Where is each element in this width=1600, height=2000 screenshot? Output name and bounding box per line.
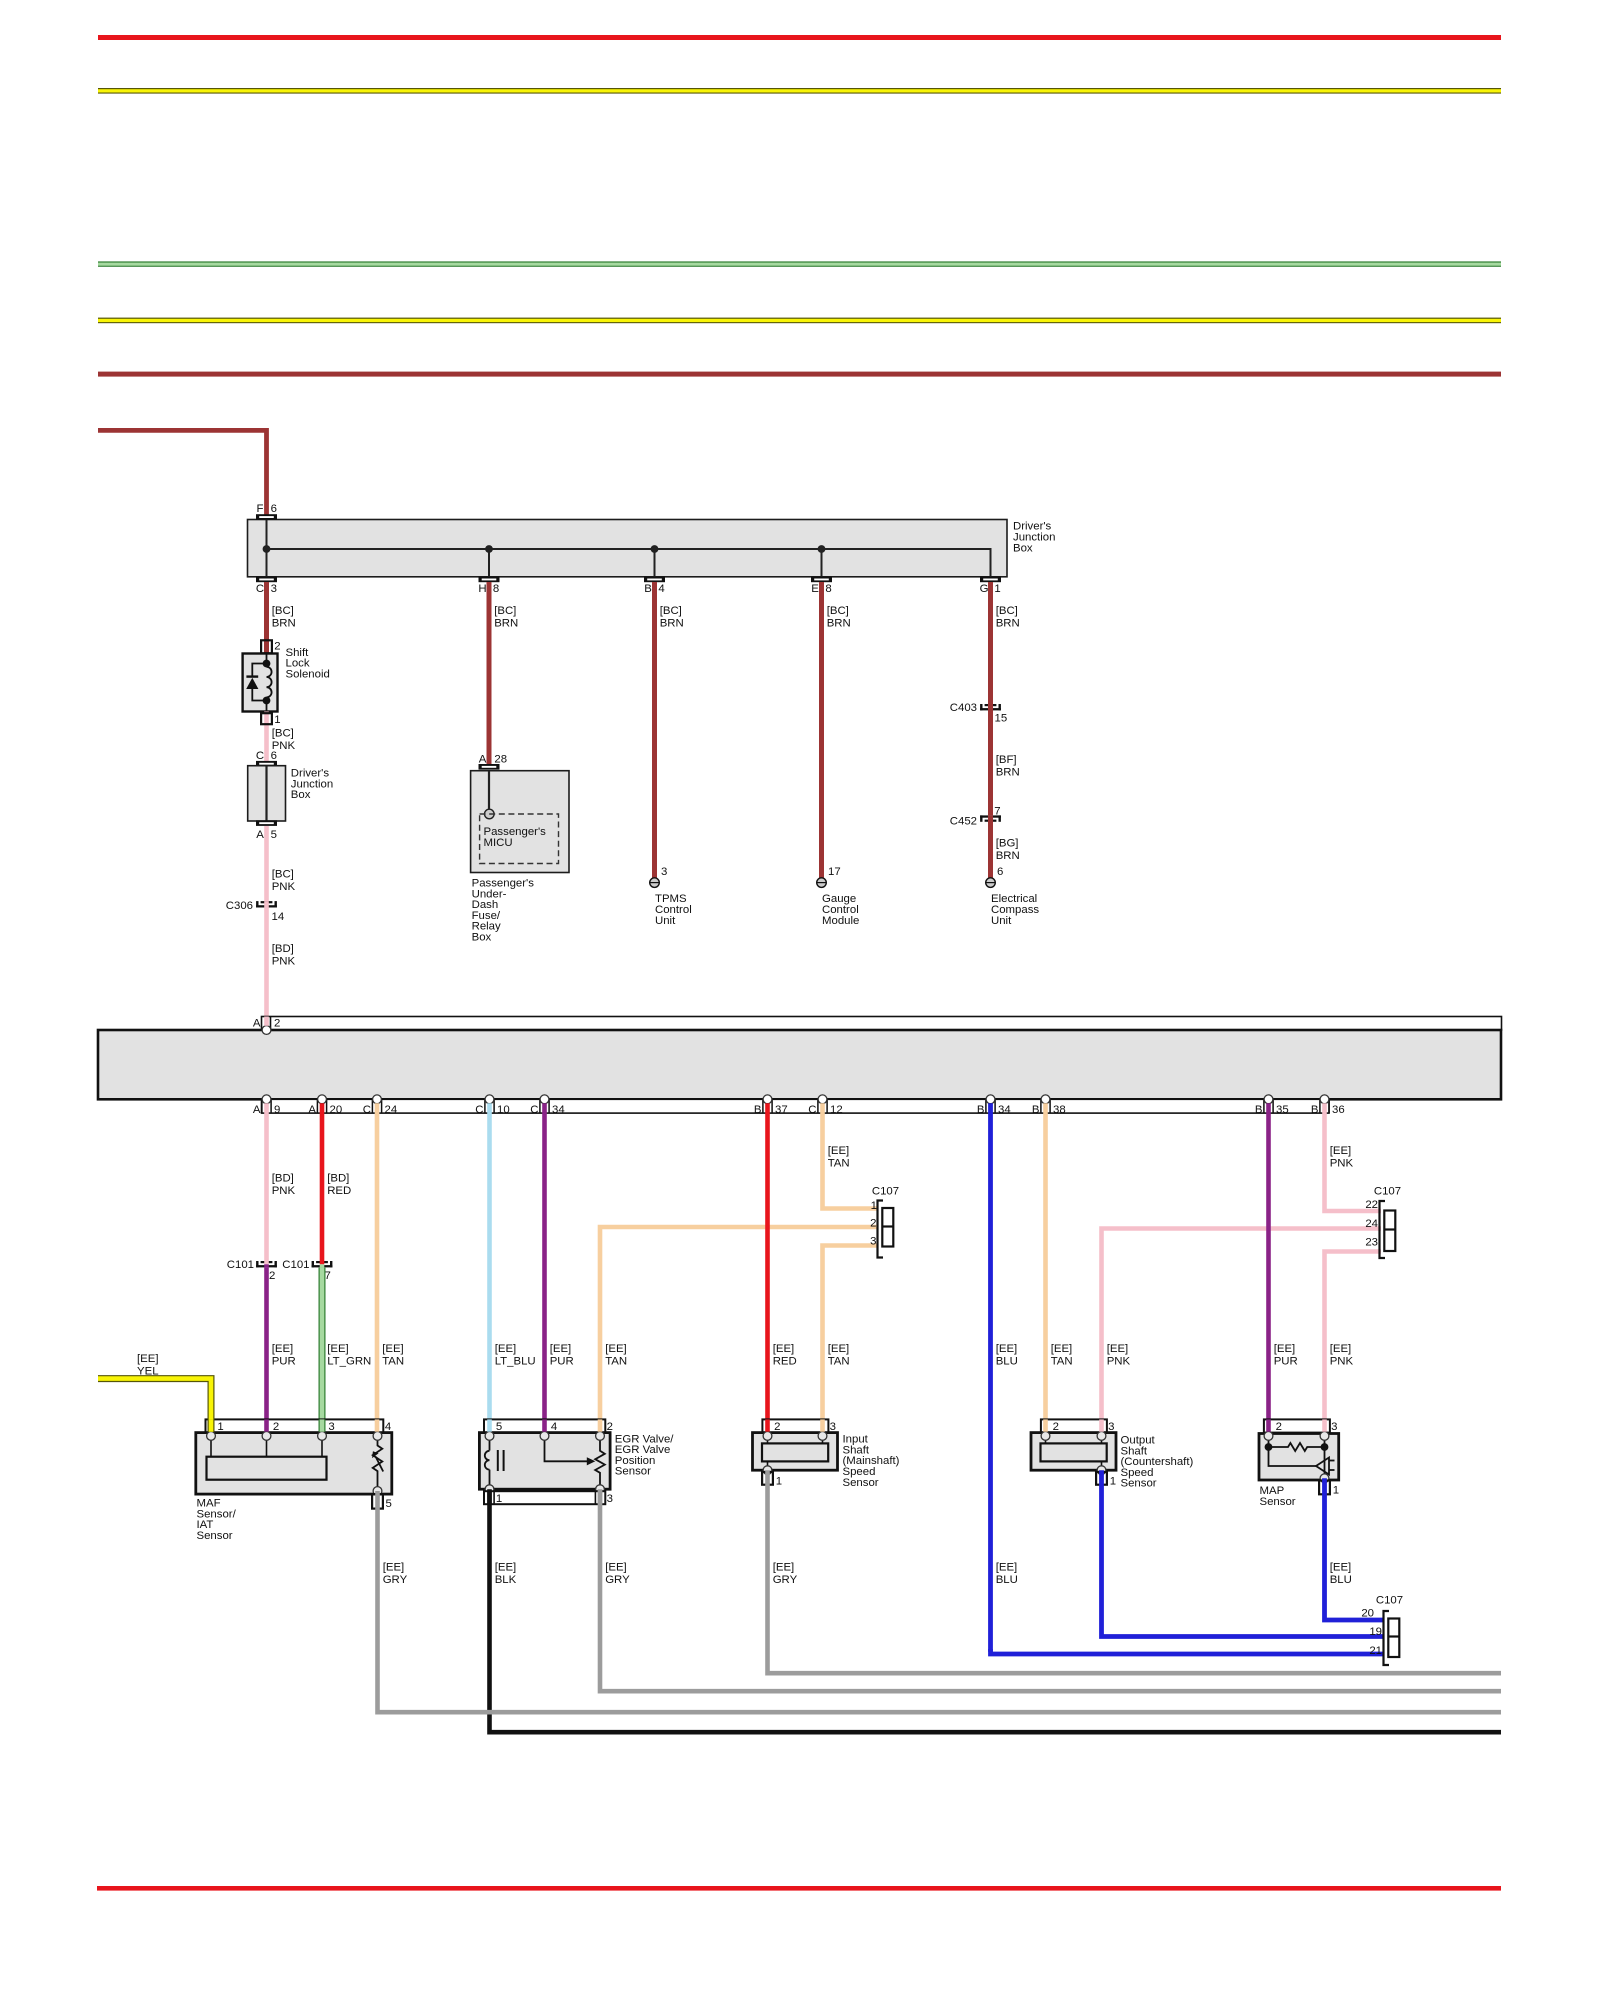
svg-text:[BG]: [BG] [996,837,1019,849]
svg-text:1: 1 [217,1421,223,1433]
svg-text:3: 3 [830,1421,836,1433]
MAP sensor body [1259,1434,1339,1481]
wire overlay LT_GRN at MAF pin3 [319,1419,326,1431]
inline connector C306 [256,901,258,907]
output sensor pin circles [1041,1432,1050,1441]
svg-text:C: C [256,583,264,595]
svg-text:9: 9 [274,1104,280,1116]
svg-text:3: 3 [1331,1421,1337,1433]
wire overlay TAN at input pin3 [820,1419,825,1431]
wire overlay RED at input pin2 [765,1419,770,1431]
wire [EE] BLU B34 down [988,1103,993,1651]
svg-text:B: B [754,1104,762,1116]
svg-text:8: 8 [493,583,499,595]
wire [EE] YEL to MAF pin1 [98,1379,211,1432]
wire [EE] PNK output3-C107 pin24 [1102,1229,1382,1432]
svg-text:5: 5 [496,1421,502,1433]
rule: green wire band [98,261,1501,266]
svg-text:10: 10 [497,1104,510,1116]
EGR solenoid coil [485,1436,490,1487]
junction connector C107 (middle) [878,1201,884,1258]
svg-text:[EE]: [EE] [828,1145,850,1157]
svg-text:1: 1 [496,1493,502,1505]
wire [EE] BLK EGR1 out [490,1489,1502,1732]
wire [BC] BRN from B4 [652,582,657,878]
svg-text:PUR: PUR [272,1356,296,1368]
svg-text:1: 1 [1110,1476,1116,1488]
rule: red separator line (bottom) [97,1886,1501,1891]
svg-text:4: 4 [658,583,664,595]
solenoid pin 1 [261,713,272,724]
connector pin A28 [479,764,500,770]
svg-text:2: 2 [274,641,280,653]
wire overlay BRN at C452 [988,815,993,822]
terminal 3 (TPMS) [650,878,660,888]
svg-text:BRN: BRN [996,850,1020,862]
svg-text:A: A [308,1104,316,1116]
input sensor body [753,1433,838,1471]
svg-text:[EE]: [EE] [605,1562,627,1574]
svg-text:2: 2 [607,1421,613,1433]
rule: red separator line (top) [98,35,1501,40]
svg-text:BLU: BLU [1330,1574,1352,1586]
svg-text:3: 3 [1108,1421,1114,1433]
wire [EE] BLU MAP1 to C107 pin20 [1325,1478,1384,1620]
svg-text:[EE]: [EE] [382,1343,404,1355]
svg-text:19: 19 [1369,1626,1382,1638]
svg-text:[BC]: [BC] [494,605,516,617]
wire overlay TAN at MAF pin4 [375,1419,380,1431]
rule: yellow wire band (top) [98,88,1501,94]
svg-text:28: 28 [494,753,507,765]
wire overlay LT_GRN at C101 right bottom [320,1264,325,1267]
wire overlay PNK at MAP pin3 [1322,1419,1327,1431]
svg-text:C107: C107 [1376,1595,1403,1607]
svg-text:PUR: PUR [550,1356,574,1368]
wire overlay TAN at output pin2 [1043,1419,1048,1431]
junction node (H8 column) [485,545,493,553]
svg-text:1: 1 [1333,1485,1339,1497]
wire [EE] GRY input1 out [768,1470,1502,1673]
svg-text:[EE]: [EE] [1274,1343,1296,1355]
svg-text:[EE]: [EE] [1330,1343,1352,1355]
wire [EE] PNK C107 pin23-MAP3 [1325,1252,1382,1432]
wire overlay PUR at EGR pin4 [542,1419,547,1431]
svg-text:3: 3 [271,583,277,595]
svg-text:17: 17 [828,866,841,878]
svg-text:C: C [475,1104,483,1116]
wire [EE] PNK B36-C107 pin22 [1325,1103,1382,1211]
junction node (F6/C3 column) [263,545,271,553]
svg-text:[BC]: [BC] [272,605,294,617]
svg-text:8: 8 [825,583,831,595]
junction connector C107 (lower right) [1384,1611,1390,1665]
svg-text:BRN: BRN [660,618,684,630]
svg-text:1: 1 [776,1476,782,1488]
svg-text:[EE]: [EE] [996,1343,1018,1355]
wire [EE] PUR C34-EGR4 [542,1103,547,1431]
wire [EE] LT_GRN C101-MAF3 [319,1268,326,1432]
terminal circle (MICU) [485,809,495,819]
svg-text:BLK: BLK [495,1574,517,1586]
svg-text:C101: C101 [282,1259,309,1271]
wire overlay PUR at MAP pin2 [1266,1419,1271,1431]
wire [EE] GRY EGR3 out [600,1489,1501,1691]
svg-text:1: 1 [994,583,1000,595]
wire overlay LT_BLU at EGR pin5 [487,1419,492,1431]
wire overlay BLK at EGR pin1 [487,1491,492,1504]
wire [EE] TAN EGR2-C107 [600,1227,878,1432]
svg-text:C107: C107 [872,1186,899,1198]
svg-text:PNK: PNK [272,1185,296,1197]
svg-text:PNK: PNK [1330,1158,1354,1170]
pin circle A2 [262,1026,271,1035]
solenoid pin 2 [261,640,272,653]
svg-text:TAN: TAN [605,1356,627,1368]
wire [EE] PUR C101-MAF2 [264,1268,269,1432]
wire overlay PUR at C101 left bottom [264,1264,269,1267]
svg-text:TAN: TAN [1051,1356,1073,1368]
MAP pin 1 [1319,1481,1330,1495]
svg-text:[EE]: [EE] [1051,1343,1073,1355]
wire to MICU terminal [488,771,490,809]
ECM bottom strip pin cells and labels [261,1099,263,1113]
driver's junction box 2 [248,766,286,821]
junction box internal bus wire [267,515,991,577]
wire [BC] PNK from A5 [264,826,269,901]
svg-text:[BC]: [BC] [996,605,1018,617]
wire overlay PNK at C101 left top [264,1261,269,1264]
wire [BG] BRN [988,822,993,878]
svg-text:Box: Box [1013,542,1033,554]
svg-text:[BD]: [BD] [272,1173,294,1185]
wire overlay PNK at A2 cell [264,1017,269,1026]
MAP transducer symbol [1269,1447,1317,1466]
svg-text:[EE]: [EE] [773,1343,795,1355]
svg-text:Box: Box [291,789,311,801]
svg-text:H: H [478,583,486,595]
wire [EE] BLU B34 to C107 pin21 [991,1649,1384,1654]
svg-text:PUR: PUR [1274,1356,1298,1368]
wire overlay BRN at C403 [988,704,993,711]
svg-text:GRY: GRY [605,1574,630,1586]
wire overlay PNK at output pin3 [1099,1419,1104,1431]
svg-text:BRN: BRN [272,618,296,630]
wire [EE] BLU output1 to C107 pin19 [1102,1470,1384,1636]
EGR valve body [479,1433,610,1490]
svg-text:A: A [479,753,487,765]
svg-text:Sensor: Sensor [615,1466,651,1478]
input sensor pin circles [763,1432,772,1441]
driver's junction box (bus) [248,520,1008,577]
svg-text:C: C [808,1104,816,1116]
svg-text:C: C [363,1104,371,1116]
inline connector C101 (left) [256,1261,258,1267]
wire [EE] TAN C24-MAF4 [375,1103,380,1431]
shift lock solenoid body [243,654,278,712]
inline connector C101 (right) [312,1261,314,1267]
svg-text:[EE]: [EE] [605,1343,627,1355]
svg-text:[EE]: [EE] [383,1562,405,1574]
terminal 17 (gauge) [817,878,827,888]
svg-text:[EE]: [EE] [550,1343,572,1355]
svg-text:[EE]: [EE] [272,1343,294,1355]
svg-text:[EE]: [EE] [1330,1145,1352,1157]
svg-text:20: 20 [1361,1608,1374,1620]
MAP pin circles [1264,1432,1273,1441]
svg-text:C101: C101 [227,1259,254,1271]
ECM top connector strip [262,1017,1502,1031]
svg-text:2: 2 [870,1217,876,1229]
svg-text:3: 3 [607,1493,613,1505]
svg-text:B: B [1032,1104,1040,1116]
svg-text:B: B [977,1104,985,1116]
svg-text:3: 3 [661,866,667,878]
svg-text:Sensor: Sensor [1121,1478,1157,1490]
svg-text:C107: C107 [1374,1186,1401,1198]
junction node (B4 column) [651,545,659,553]
passenger's under-dash fuse/relay box [471,771,569,873]
terminal 6 (compass) [986,878,996,888]
svg-text:LT_GRN: LT_GRN [327,1356,371,1368]
svg-text:TAN: TAN [382,1356,404,1368]
svg-text:C: C [530,1104,538,1116]
wire [BC] BRN battery feed to F6 [98,430,267,515]
svg-text:TAN: TAN [828,1158,850,1170]
svg-text:PNK: PNK [272,881,296,893]
svg-text:PNK: PNK [1107,1356,1131,1368]
svg-text:[BC]: [BC] [660,605,682,617]
wire [BC] BRN from C3 [264,582,269,654]
rule: dark red wire band [98,372,1501,377]
wire [BF] BRN [988,711,993,816]
svg-text:7: 7 [994,806,1000,818]
svg-text:RED: RED [773,1356,797,1368]
wire overlay PNK at C306 [264,901,269,908]
solenoid flyback diode [252,664,266,701]
svg-text:21: 21 [1369,1645,1382,1657]
svg-text:A: A [253,1017,261,1029]
EGR pin circles [485,1432,494,1441]
svg-text:3: 3 [328,1421,334,1433]
wire [EE] LT_BLU C10-EGR5 [487,1103,492,1431]
svg-text:15: 15 [995,713,1008,725]
svg-text:14: 14 [272,911,285,923]
wire overlay RED at C101 right top [320,1261,325,1264]
svg-text:4: 4 [551,1421,557,1433]
svg-text:Module: Module [822,915,859,927]
svg-text:2: 2 [774,1421,780,1433]
inline connector C452 [980,815,982,821]
connector pin A5 [256,820,277,826]
svg-text:[BF]: [BF] [996,754,1017,766]
svg-text:BRN: BRN [494,618,518,630]
svg-text:C306: C306 [226,900,253,912]
wire overlay YEL at MAF pin1 [208,1419,215,1431]
svg-text:G: G [980,583,989,595]
connector pin B4 [644,577,665,583]
wire overlay TAN at EGR pin2 [598,1419,603,1431]
svg-text:[EE]: [EE] [327,1343,349,1355]
junction node (E8 column) [818,545,826,553]
svg-text:GRY: GRY [383,1574,408,1586]
svg-text:5: 5 [271,829,277,841]
svg-text:Solenoid: Solenoid [286,669,330,681]
MAF pin 5 [372,1494,383,1509]
input sensor pickup element [762,1443,828,1461]
wire [EE] PUR B35-MAP2 [1266,1103,1271,1431]
svg-text:24: 24 [385,1104,398,1116]
EGR position sensor potentiometer [595,1436,605,1487]
svg-text:C: C [256,750,264,762]
ECM bottom connector strip [262,1099,1330,1113]
MAF connector strip [206,1419,384,1432]
wire [BC] PNK solenoid pin1 [264,712,269,762]
output sensor pickup element [1041,1443,1107,1461]
wire [BC] BRN from H8 [487,582,492,764]
svg-text:C452: C452 [950,815,977,827]
svg-text:Sensor: Sensor [197,1530,233,1542]
svg-text:MICU: MICU [484,837,513,849]
svg-text:[EE]: [EE] [828,1343,850,1355]
svg-text:2: 2 [269,1270,275,1282]
inline connector C403 [980,704,982,710]
EGR bottom strip [484,1491,605,1504]
MAF internal element [207,1457,327,1480]
svg-text:YEL: YEL [137,1366,159,1378]
wire overlay GRY at EGR pin3 [598,1491,603,1504]
svg-text:PNK: PNK [1330,1356,1354,1368]
connector pin C3 [256,577,277,583]
passenger's MICU dashed box [480,814,559,864]
svg-text:E: E [811,583,819,595]
svg-text:[EE]: [EE] [495,1343,517,1355]
connector pin C6 [256,761,277,767]
output sensor connector strip [1041,1419,1107,1432]
input sensor connector strip [762,1419,828,1432]
svg-text:24: 24 [1365,1218,1378,1230]
svg-text:1: 1 [871,1200,877,1212]
solenoid coil [267,654,272,712]
MAP connector strip [1264,1419,1330,1432]
wire [EE] TAN C107 pin3-input3 [823,1246,879,1432]
svg-text:1: 1 [274,714,280,726]
ECM gray bus band [98,1030,1501,1099]
wire [EE] GRY MAF5 out [378,1491,1502,1712]
svg-text:Box: Box [472,932,492,944]
svg-text:6: 6 [997,866,1003,878]
ECM bottom pin circles [262,1095,271,1104]
svg-text:B: B [1311,1104,1319,1116]
MAF sensor body [196,1433,392,1495]
svg-text:Unit: Unit [655,915,676,927]
svg-text:A: A [253,1104,261,1116]
svg-text:6: 6 [271,750,277,762]
svg-text:BRN: BRN [827,618,851,630]
output sensor body [1031,1433,1116,1471]
svg-text:[EE]: [EE] [495,1562,517,1574]
svg-text:LT_BLU: LT_BLU [495,1356,536,1368]
svg-text:23: 23 [1365,1237,1378,1249]
svg-text:[BD]: [BD] [272,943,294,955]
svg-text:C403: C403 [950,702,977,714]
rule: yellow wire band (second) [98,318,1501,324]
MAF pin circles [207,1432,216,1441]
svg-text:36: 36 [1332,1104,1345,1116]
svg-text:[BD]: [BD] [327,1173,349,1185]
svg-text:2: 2 [273,1421,279,1433]
MAP internal resistor [1269,1436,1325,1477]
svg-text:6: 6 [271,503,277,515]
svg-text:B: B [644,583,652,595]
svg-text:[EE]: [EE] [773,1562,795,1574]
connector pin F6 [256,514,277,520]
svg-text:35: 35 [1276,1104,1289,1116]
svg-text:Sensor: Sensor [1260,1496,1296,1508]
svg-text:[EE]: [EE] [1107,1343,1129,1355]
wire [EE] TAN C12-C107 pin1 [823,1103,879,1208]
MAF IAT thermistor [373,1436,383,1491]
svg-text:5: 5 [386,1498,392,1510]
junction connector C107 (upper right) [1380,1201,1386,1258]
svg-text:B: B [1255,1104,1263,1116]
wire [EE] RED B37-input2 [765,1103,770,1431]
svg-text:[BC]: [BC] [827,605,849,617]
pin cell A2 [270,1017,272,1031]
connector pin H8 [479,577,500,583]
svg-text:Sensor: Sensor [843,1477,879,1489]
svg-text:4: 4 [385,1421,391,1433]
connector pin E8 [811,577,832,583]
wire [EE] TAN B38-output2 [1043,1103,1048,1431]
svg-text:[EE]: [EE] [1330,1562,1352,1574]
svg-text:38: 38 [1053,1104,1066,1116]
svg-text:F: F [257,503,264,515]
svg-text:[BC]: [BC] [272,727,294,739]
svg-text:2: 2 [274,1017,280,1029]
svg-text:BLU: BLU [996,1356,1018,1368]
wire overlay PUR at MAF pin2 [264,1419,269,1431]
wire [BC] BRN from G1 [988,582,993,704]
svg-text:BRN: BRN [996,767,1020,779]
svg-text:20: 20 [330,1104,343,1116]
svg-text:RED: RED [327,1185,351,1197]
EGR connector strip [484,1419,605,1432]
svg-text:GRY: GRY [773,1574,798,1586]
svg-text:[BC]: [BC] [272,869,294,881]
output sensor pin 1 [1096,1472,1107,1485]
input sensor pin 1 [762,1472,773,1485]
wire [BD] PNK A9-C101 [264,1103,269,1261]
svg-text:PNK: PNK [272,955,296,967]
svg-text:BLU: BLU [996,1574,1018,1586]
svg-text:22: 22 [1365,1199,1378,1211]
svg-text:2: 2 [1053,1421,1059,1433]
svg-text:3: 3 [870,1235,876,1247]
svg-text:BRN: BRN [996,618,1020,630]
wire [BD] RED A20-C101 [320,1103,325,1261]
svg-text:[EE]: [EE] [996,1562,1018,1574]
svg-text:A: A [256,829,264,841]
svg-text:37: 37 [775,1104,788,1116]
svg-text:Unit: Unit [991,915,1012,927]
svg-text:12: 12 [830,1104,843,1116]
svg-text:TAN: TAN [828,1356,850,1368]
svg-text:2: 2 [1276,1421,1282,1433]
svg-text:34: 34 [552,1104,565,1116]
wire [BD] PNK from C306 [264,908,269,1027]
wire [BC] BRN from E8 [819,582,824,878]
